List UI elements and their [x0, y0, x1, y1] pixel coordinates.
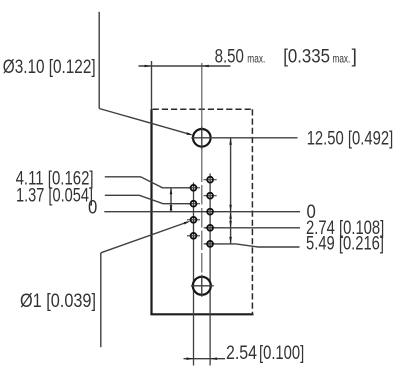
body outline top edge (hidden, dashed) — [153, 109, 253, 313]
pad B5 (right col row +5.49) — [207, 241, 213, 247]
pad B2 (right col row -2.74) — [207, 193, 213, 199]
extension line left (above body) — [151, 61, 153, 109]
svg-text:2.54: 2.54 — [226, 343, 257, 364]
arrowheads on vertical dimension line — [229, 138, 232, 244]
leader for Ø1 (diagonal segment) — [101, 222, 188, 253]
leader 4.11 (jogged to pad row -4.11) — [105, 177, 191, 188]
top hole vertical crosshair — [201, 127, 203, 149]
svg-text:Ø1 [0.039]: Ø1 [0.039] — [20, 291, 96, 312]
leader for Ø3.10 (diagonal segment) — [99, 109, 190, 135]
bottom hole vertical crosshair — [201, 275, 203, 297]
body outline bottom edge (solid) — [150, 313, 253, 315]
pad A1 (left col row -4.11) — [191, 185, 197, 191]
body outline left edge (solid) — [150, 109, 253, 314]
leader for Ø3.10 (vertical segment) — [99, 12, 190, 135]
svg-text:12.50 [0.492]: 12.50 [0.492] — [307, 128, 394, 149]
vertical centerline — [201, 63, 203, 297]
dimension 8.50 max. dimension line — [139, 61, 231, 109]
crosshair / 12.50 leader line — [191, 137, 297, 139]
pad B1 (right col row -5.49) — [207, 177, 213, 183]
dimension 2.54 dimension line — [184, 358, 226, 360]
left pad column line (crosshairs + extension to 2.54 dim) — [193, 183, 195, 366]
row 5.49 leader line (jogged) — [205, 244, 300, 247]
svg-text:5.49 [0.216]: 5.49 [0.216] — [306, 234, 384, 255]
pad horizontal crosshair ticks — [187, 180, 217, 244]
arrowhead at pad A3 — [184, 221, 191, 225]
row 2.74 leader line — [205, 227, 300, 229]
arrowhead at top mounting hole — [187, 132, 194, 135]
pad A3 (left col row +1.37) — [191, 217, 197, 223]
pad A2 (left col row -1.37) — [191, 201, 197, 207]
svg-text:0: 0 — [88, 198, 97, 219]
svg-text:]: ] — [352, 46, 357, 67]
svg-text:max.: max. — [247, 51, 265, 65]
pad B4 (right col row +2.74) — [207, 225, 213, 231]
svg-text:max.: max. — [333, 51, 351, 65]
left mini dimension line (4.11/1.37 to 0) — [170, 188, 172, 212]
pad B3 (right col row 0) — [207, 209, 213, 215]
arrowheads for 8.50 dim — [145, 65, 209, 68]
svg-text:[0.335: [0.335 — [283, 46, 330, 67]
body outline right edge (hidden, dashed) — [251, 109, 253, 313]
vertical dimension line 12.50 / 2.74 / 5.49 — [230, 138, 232, 244]
svg-text:8.50: 8.50 — [215, 46, 244, 67]
arrowheads for 2.54 dim — [187, 357, 218, 360]
bottom hole horizontal crosshair — [191, 285, 214, 287]
svg-text:Ø3.10 [0.122]: Ø3.10 [0.122] — [3, 57, 96, 78]
leader for Ø1 (vertical segment) — [101, 222, 188, 347]
mounting hole top (Ø3.10) — [193, 129, 211, 147]
arrowheads on left mini dimension — [170, 188, 173, 212]
right pad column line (crosshairs + extension to 2.54 dim) — [209, 174, 211, 366]
svg-text:1.37 [0.054]: 1.37 [0.054] — [16, 185, 93, 206]
leader 1.37 (jogged to pad row -1.37) — [105, 195, 191, 203]
svg-text:[0.100]: [0.100] — [259, 343, 304, 364]
mounting hole bottom (Ø3.10) — [193, 277, 211, 295]
row 0 datum line (full width) — [104, 211, 300, 213]
pad A4 (left col row +4.11) — [191, 233, 197, 239]
